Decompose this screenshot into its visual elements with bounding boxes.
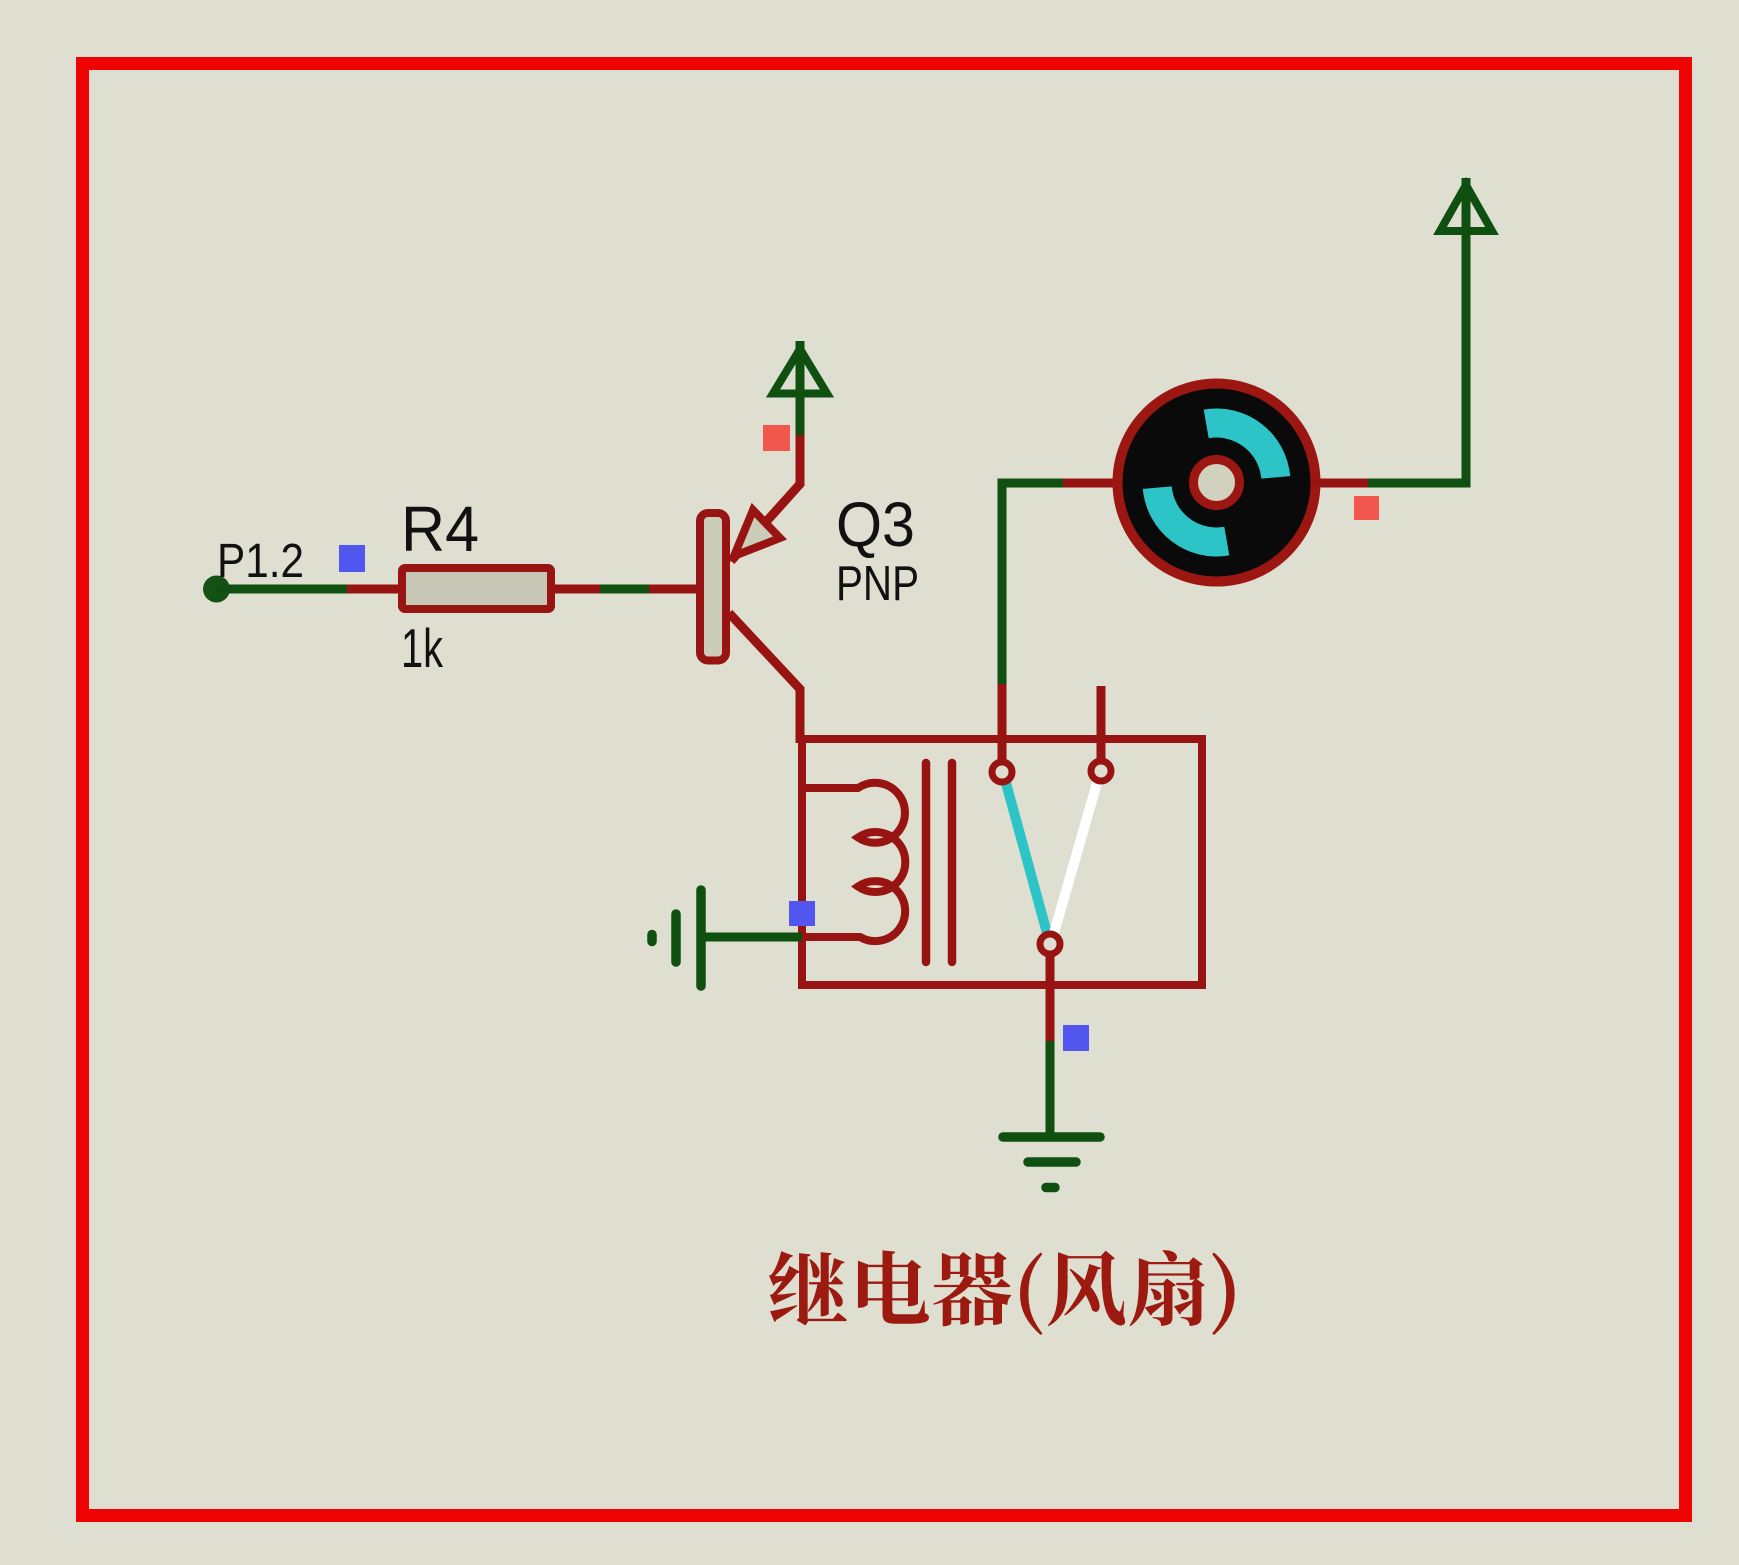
relay RL xyxy=(802,684,1202,1041)
pin marker blue at relay coil xyxy=(789,901,815,926)
relay box xyxy=(802,739,1202,985)
relay common pin down xyxy=(1046,955,1055,1041)
pin marker blue on P1.2 wire xyxy=(339,545,365,572)
svg-text:R4: R4 xyxy=(401,493,479,565)
fan blade bottom xyxy=(1143,486,1230,556)
svg-text:P1.2: P1.2 xyxy=(217,535,304,588)
relay switch blade closed (cyan) xyxy=(1006,783,1047,933)
power arrow right xyxy=(1440,185,1492,231)
wire fan to power arrow xyxy=(1368,178,1466,483)
Q3 collector pin xyxy=(729,613,800,743)
wire coil to ground xyxy=(701,933,802,942)
Q3 emitter pin xyxy=(731,435,800,561)
transistor Q3 xyxy=(700,435,800,743)
caption 继电器(风扇) xyxy=(769,1250,1235,1335)
svg-text:1k: 1k xyxy=(401,617,443,679)
svg-text:Q3: Q3 xyxy=(836,490,915,560)
ground left xyxy=(652,890,701,986)
wire R4 to Q3 base xyxy=(600,585,649,594)
pin R4 left xyxy=(347,585,402,594)
relay contact stub NC xyxy=(1097,686,1106,760)
power arrow above Q3 xyxy=(773,341,827,435)
relay coil xyxy=(802,783,905,941)
Q3 emitter arrowhead xyxy=(734,510,780,556)
relay contact NO circle xyxy=(992,762,1012,782)
fan blade top xyxy=(1204,408,1291,478)
pin Q3 base xyxy=(649,585,700,594)
pin fan right xyxy=(1312,479,1368,488)
pin marker red above Q3 xyxy=(763,425,790,451)
fan hub xyxy=(1194,460,1240,506)
relay common contact circle xyxy=(1040,934,1060,954)
pin marker red right of fan xyxy=(1354,496,1379,520)
relay core bar right xyxy=(948,763,957,962)
wire Q3 collector node to fan (up-left leg) xyxy=(1002,483,1063,684)
pin marker blue at common ground xyxy=(1063,1025,1089,1051)
pin R4 right xyxy=(551,585,600,594)
wire common to ground bottom xyxy=(1046,1041,1055,1133)
wire P1.2 to R4 xyxy=(216,585,347,594)
relay switch blade open (white) xyxy=(1054,783,1097,933)
relay core bar left xyxy=(922,763,931,962)
fan body xyxy=(1118,384,1316,582)
pin fan left xyxy=(1063,479,1120,488)
Q3 base bar xyxy=(700,513,726,661)
ground bottom xyxy=(1003,1137,1100,1188)
svg-text:PNP: PNP xyxy=(836,557,919,611)
resistor R4 xyxy=(402,568,551,609)
relay contact stub NO xyxy=(998,684,1007,761)
relay contact NC circle xyxy=(1091,761,1111,781)
motor FAN xyxy=(1118,384,1316,582)
node P1.2 terminal dot xyxy=(203,576,230,603)
